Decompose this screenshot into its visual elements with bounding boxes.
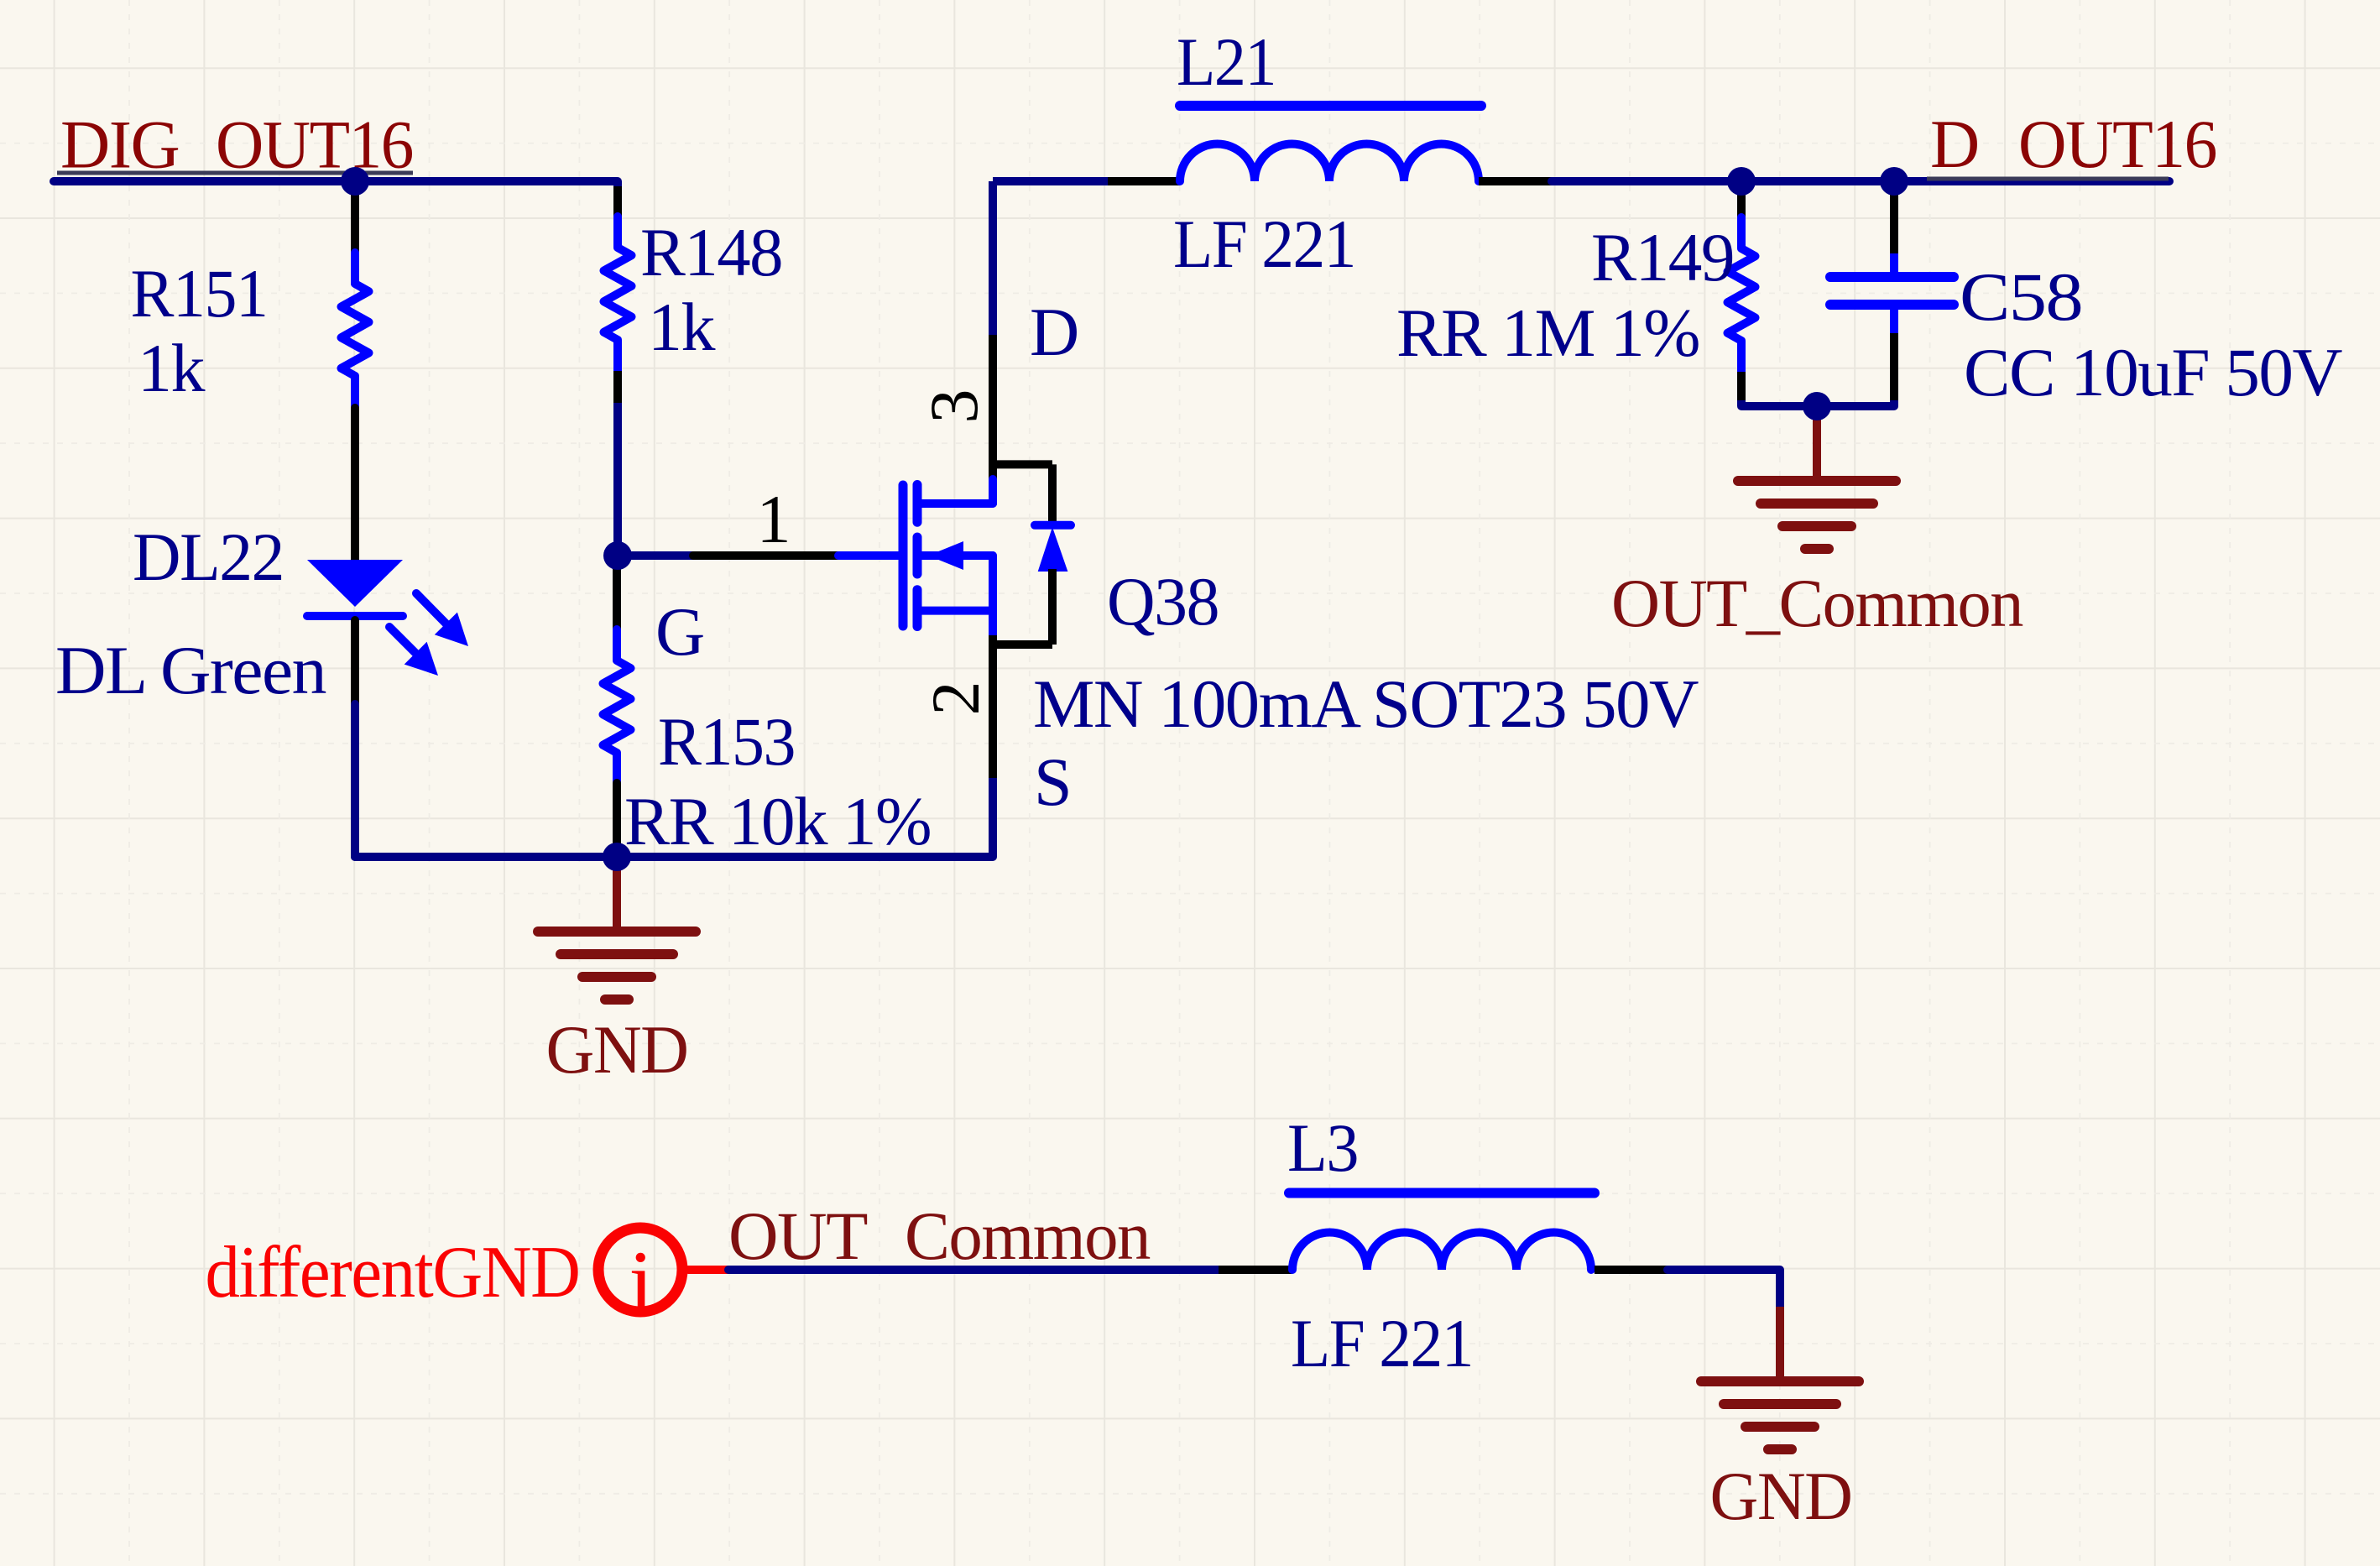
svg-text:DIG: DIG <box>60 107 179 183</box>
svg-text:D: D <box>1930 106 1979 182</box>
svg-text:Q38: Q38 <box>1107 563 1219 639</box>
svg-text:G: G <box>655 593 704 670</box>
svg-text:i: i <box>629 1233 653 1331</box>
svg-text:OUT: OUT <box>728 1198 867 1274</box>
svg-text:C58: C58 <box>1960 258 2082 335</box>
svg-text:R149: R149 <box>1591 219 1734 295</box>
svg-text:L21: L21 <box>1177 23 1276 100</box>
svg-text:differentGND: differentGND <box>206 1232 580 1313</box>
svg-text:1k: 1k <box>648 289 716 365</box>
svg-text:R148: R148 <box>640 214 782 290</box>
svg-text:D: D <box>1030 294 1078 370</box>
svg-text:GND: GND <box>1710 1458 1852 1534</box>
svg-text:S: S <box>1034 744 1071 820</box>
svg-text:R151: R151 <box>131 255 268 331</box>
svg-text:LF 221: LF 221 <box>1291 1305 1473 1381</box>
svg-text:3: 3 <box>916 389 992 424</box>
svg-text:DL22: DL22 <box>133 519 284 595</box>
svg-text:RR 1M 1%: RR 1M 1% <box>1396 295 1699 371</box>
svg-text:Common: Common <box>905 1198 1150 1274</box>
svg-text:CC 10uF 50V: CC 10uF 50V <box>1964 334 2342 410</box>
svg-text:1k: 1k <box>138 330 206 406</box>
svg-text:2: 2 <box>917 681 994 716</box>
svg-text:LF 221: LF 221 <box>1173 206 1355 282</box>
svg-text:OUT16: OUT16 <box>216 107 413 183</box>
svg-text:MN 100mA SOT23 50V: MN 100mA SOT23 50V <box>1033 666 1699 742</box>
svg-text:R153: R153 <box>658 703 795 780</box>
svg-text:L3: L3 <box>1287 1109 1358 1186</box>
svg-text:RR 10k 1%: RR 10k 1% <box>624 783 931 859</box>
svg-text:DL Green: DL Green <box>55 632 326 708</box>
svg-text:OUT16: OUT16 <box>2018 106 2216 182</box>
svg-text:1: 1 <box>757 481 791 557</box>
svg-text:OUT_Common: OUT_Common <box>1611 565 2022 641</box>
svg-text:GND: GND <box>546 1011 688 1088</box>
